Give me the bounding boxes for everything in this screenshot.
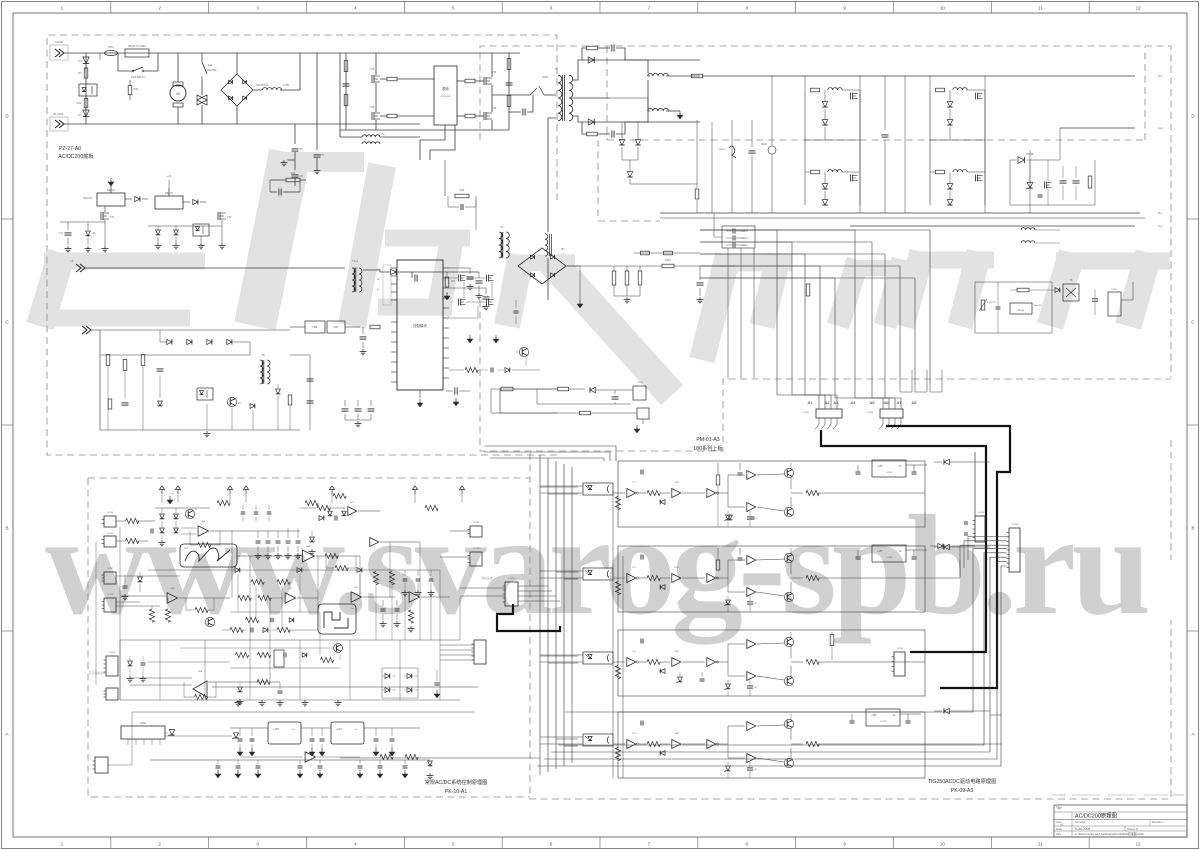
svg-text:171A: 171A xyxy=(673,481,679,484)
svg-text:DC...: DC... xyxy=(1158,74,1164,78)
buffer triangle 2e bottom xyxy=(747,588,756,597)
wire aux rail xyxy=(85,267,345,269)
svg-text:A: A xyxy=(5,732,8,737)
rectifier block at x=805 xyxy=(804,90,806,205)
inductor pair right xyxy=(1021,228,1035,230)
connector CON6 input xyxy=(50,45,68,60)
buffer triangle 4e bottom xyxy=(747,754,756,763)
resistor R ladder left xyxy=(149,609,154,622)
row3 zener cap xyxy=(678,677,683,682)
fan cap C180 xyxy=(1092,298,1098,300)
gnd bottom cluster xyxy=(206,431,208,434)
bottom caps row xyxy=(217,760,219,764)
right connector CON7 small xyxy=(975,516,985,542)
extra staircase wires right xyxy=(900,370,912,392)
wire bottom input rail xyxy=(64,123,420,125)
switch S1 xyxy=(201,53,203,62)
cap C26 xyxy=(278,690,283,692)
wire opto in xyxy=(540,570,583,572)
transistor Q3a xyxy=(784,637,793,646)
svg-text:PK-10-A1: PK-10-A1 xyxy=(445,789,468,795)
rail top channel xyxy=(790,548,792,554)
secondary snubber bottom xyxy=(587,132,598,136)
resistor R32 xyxy=(123,360,127,371)
svg-text:RV1: RV1 xyxy=(134,87,140,91)
svg-text:CON5: CON5 xyxy=(107,533,114,535)
svg-text:VT5: VT5 xyxy=(370,105,375,109)
cap C14 xyxy=(157,368,164,370)
cap C34a xyxy=(278,189,280,196)
buffer triangle 3b xyxy=(672,658,681,667)
svg-text:Sheet of: Sheet of xyxy=(1127,827,1138,831)
fan relay diode xyxy=(1055,288,1060,293)
svg-text:A1: A1 xyxy=(808,400,814,405)
current transformer T1 xyxy=(362,135,380,137)
resistor R21 xyxy=(126,538,139,543)
secondary diode D403a xyxy=(588,57,594,63)
lug DC4 xyxy=(1134,223,1136,225)
wire to split xyxy=(717,492,728,494)
wire module bottom gnd xyxy=(419,390,421,398)
diode D17 xyxy=(250,404,255,409)
svg-text:PM-01-A3: PM-01-A3 xyxy=(696,437,719,443)
cap C22 xyxy=(334,516,336,521)
svg-text:CON3: CON3 xyxy=(978,512,985,514)
output resistor R4o xyxy=(806,741,819,746)
svg-text:CON8: CON8 xyxy=(107,594,114,596)
wire board D to driver board left bus xyxy=(497,486,530,488)
board D outline PK-10-A1 xyxy=(88,478,530,797)
svg-text:VT6: VT6 xyxy=(492,106,497,110)
svg-text:CON6: CON6 xyxy=(55,40,64,44)
svg-text:+15V: +15V xyxy=(877,550,883,553)
extra diodes mid D xyxy=(235,568,240,573)
svg-text:10: 10 xyxy=(940,6,946,11)
connector CON10 multi xyxy=(505,582,518,606)
output resistor R1o xyxy=(806,490,819,495)
diode D12 xyxy=(391,269,397,275)
svg-text:CON4: CON4 xyxy=(107,512,114,514)
row3 output connector xyxy=(894,652,905,676)
varistor RV2 xyxy=(84,99,88,108)
left edge verticals D xyxy=(119,527,121,700)
svg-text:L7815: L7815 xyxy=(880,721,887,723)
opamp U26 xyxy=(351,592,362,603)
svg-text:R612: R612 xyxy=(665,259,671,262)
wires blocks verticals xyxy=(804,76,806,90)
svg-text:C4: C4 xyxy=(299,147,303,151)
svg-text:-OVI: -OVI xyxy=(376,269,381,271)
bottom D zener xyxy=(428,761,433,766)
svg-text:C:\Documents and Settings\(AC: C:\Documents and Settings\(AC DC200原理图).… xyxy=(1075,831,1144,836)
zone row ticks and letters xyxy=(2,218,14,220)
emitter join wires xyxy=(790,646,792,658)
resistor R24 xyxy=(615,582,620,595)
module left pins xyxy=(391,267,397,269)
svg-text:173A: 173A xyxy=(673,650,679,653)
rail top channel xyxy=(790,714,792,720)
extra gnd syms D xyxy=(237,700,239,703)
resistor R26d xyxy=(325,553,338,558)
svg-text:174A: 174A xyxy=(673,732,679,735)
extra transistor D xyxy=(334,644,343,653)
svg-text:VT1: VT1 xyxy=(110,215,115,219)
cap C613 with gnd xyxy=(454,388,456,395)
zener Z4 xyxy=(726,766,731,771)
svg-text:9-Jul-2008: 9-Jul-2008 xyxy=(1075,827,1090,831)
cap C40 xyxy=(515,300,517,308)
diode loop 2 xyxy=(660,585,665,590)
fan conn xyxy=(1108,292,1121,316)
svg-text:TTR80: TTR80 xyxy=(1012,524,1019,526)
svg-text:D7: D7 xyxy=(78,113,82,117)
row 700 verticals xyxy=(119,640,121,700)
buffer triangle 1c xyxy=(707,489,716,498)
reg caps xyxy=(851,714,853,720)
module right pins xyxy=(443,267,449,269)
rail top channel xyxy=(790,463,792,469)
regulator +15 box xyxy=(268,722,301,744)
mosfet VT1 xyxy=(100,212,102,220)
svg-text:CON1: CON1 xyxy=(140,722,147,725)
svg-text:TIG250ACDC驱动电路原理图: TIG250ACDC驱动电路原理图 xyxy=(928,777,996,785)
diode cluster relay2 xyxy=(156,230,161,235)
right cluster diode xyxy=(1029,150,1031,213)
wire bridge output xyxy=(253,89,262,91)
svg-text:MT1: MT1 xyxy=(108,45,114,49)
transistor Q2a xyxy=(784,553,793,562)
svg-text:RECKYSY-B04: RECKYSY-B04 xyxy=(128,44,146,48)
pot W3 xyxy=(169,730,174,735)
gnd sec xyxy=(679,111,681,115)
wires to CON3d xyxy=(440,644,474,646)
svg-text:10 Bu: 10 Bu xyxy=(283,84,290,87)
resistor R616 xyxy=(558,387,569,391)
svg-text:+15V: +15V xyxy=(273,727,279,731)
board B inner dashed partition xyxy=(607,46,1145,140)
mosfet VT5 xyxy=(371,112,373,120)
inductor L1 10uH xyxy=(262,88,281,90)
mid verticals D xyxy=(231,531,233,598)
inner dashed partition lower leg xyxy=(598,140,660,221)
zener D32 xyxy=(627,172,632,177)
diode bridge pairs xyxy=(385,674,390,679)
wire relay1 top xyxy=(110,185,112,193)
resistor R44 xyxy=(615,748,620,761)
ruling marks above title block xyxy=(1052,794,1066,796)
gate resistor R25 xyxy=(387,77,397,81)
svg-text:Date: Date xyxy=(1056,827,1063,831)
driver shared rail 613 xyxy=(612,490,614,778)
aux bridge B3 xyxy=(518,248,566,284)
output resistor R2o xyxy=(806,575,819,580)
svg-text:A5: A5 xyxy=(870,400,876,405)
svg-text:W2: W2 xyxy=(451,279,455,283)
feedback R27 xyxy=(335,565,348,570)
rail top D xyxy=(155,507,210,509)
left bus connect channels xyxy=(540,486,578,488)
fan relay coil xyxy=(1010,303,1032,314)
svg-text:D620B: D620B xyxy=(1026,153,1034,156)
buffer triangle 3a xyxy=(627,658,636,667)
wire opto in xyxy=(540,485,583,487)
resistor R617 xyxy=(580,411,591,415)
thick wire control to driver xyxy=(497,631,840,700)
series resistor zigzag 1 xyxy=(647,490,660,495)
wire inverter bottom rail xyxy=(340,129,509,131)
zener Z5 xyxy=(276,389,281,394)
extra zener cluster D xyxy=(328,511,332,515)
right cluster mosfet xyxy=(1044,182,1046,189)
small caps near CON7 xyxy=(964,521,966,525)
feedback R30d xyxy=(195,694,208,699)
svg-text:12: 12 xyxy=(1136,6,1142,11)
svg-text:D6: D6 xyxy=(78,59,82,63)
svg-text:U3D: U3D xyxy=(354,587,359,589)
svg-text:Q: Q xyxy=(195,509,197,511)
emitter join wires xyxy=(790,728,792,740)
svg-text:DS4 RELAY: DS4 RELAY xyxy=(131,75,145,79)
mosfet VT12 xyxy=(458,299,460,306)
buffer triangle 3e bottom xyxy=(747,672,756,681)
sub wires bottom cluster xyxy=(107,366,109,430)
connector CON3d mid xyxy=(474,640,486,664)
resistor R ladder 620 xyxy=(408,610,413,623)
opamp U22 xyxy=(348,507,357,516)
bottom rail D xyxy=(150,759,430,761)
HG01 sensor xyxy=(768,146,776,154)
svg-text:A(+): A(+) xyxy=(1158,126,1163,130)
opamp U20 xyxy=(198,526,209,537)
buffer triangle 4b xyxy=(672,740,681,749)
zener Z1 xyxy=(726,515,731,520)
sec rail junctions xyxy=(625,60,648,73)
fan relay resistor xyxy=(1017,288,1029,292)
diode D9 xyxy=(183,201,190,203)
wire aux bridge out xyxy=(566,265,580,267)
svg-text:10: 10 xyxy=(940,842,946,847)
svg-text:CON7: CON7 xyxy=(107,568,114,570)
svg-text:U5A: U5A xyxy=(201,520,206,523)
wire rail to inverter xyxy=(339,53,341,130)
rail top channel xyxy=(790,632,792,638)
vertical drop R45 xyxy=(696,120,698,188)
verticals under C34 box xyxy=(727,248,729,378)
wire relay branch xyxy=(118,53,124,71)
row4 zener cap xyxy=(727,767,729,769)
extra net mid D2 xyxy=(230,611,320,613)
svg-text:PK-09-A3: PK-09-A3 xyxy=(951,788,974,794)
svg-text:A(-): A(-) xyxy=(1158,224,1162,228)
wire opto in xyxy=(540,654,583,656)
buffer triangle 2c xyxy=(707,574,716,583)
74 logic box xyxy=(318,604,356,634)
svg-text:A1: A1 xyxy=(1060,823,1064,827)
connector CON616 xyxy=(633,386,646,400)
gate resistor R26 xyxy=(387,114,397,118)
lug DC3 xyxy=(1134,210,1136,212)
regulator U1R xyxy=(872,460,906,477)
svg-text:File: File xyxy=(1056,832,1061,836)
row3 thick link xyxy=(905,654,987,656)
svg-text:11: 11 xyxy=(1038,842,1043,847)
cap C27 pair xyxy=(435,682,440,684)
lug DC1 xyxy=(1134,73,1136,75)
thin wire to CON3 xyxy=(974,452,976,516)
switch S2 xyxy=(539,86,544,95)
diode D616 xyxy=(590,387,595,392)
svg-text:CON5: CON5 xyxy=(897,648,904,650)
resistor bleed xyxy=(280,89,292,91)
resistor R31d xyxy=(257,679,270,684)
resistor R33 xyxy=(141,355,145,366)
svg-text:OKI79/C33: OKI79/C33 xyxy=(256,84,268,87)
bus rail 218 xyxy=(660,217,1145,219)
board A outline PZ-27-A0 xyxy=(47,35,557,455)
reg diode D1r xyxy=(944,459,949,464)
opto U2 xyxy=(583,568,613,580)
zone column ticks and numbers xyxy=(110,2,112,14)
wire bundle board B bottom-left to board D xyxy=(479,392,481,460)
pot W2 xyxy=(445,277,449,287)
opto U4 xyxy=(583,734,613,746)
extra verticals D xyxy=(237,574,239,612)
buffer triangle 4c xyxy=(707,740,716,749)
wire row 640 xyxy=(120,639,460,641)
aux resistors x3 xyxy=(612,271,616,285)
regulator U4R xyxy=(866,709,900,726)
resistor R34 xyxy=(288,395,292,405)
driver channel 3 outline xyxy=(618,630,925,696)
bottom cluster rails xyxy=(100,329,290,331)
svg-text:REL457: REL457 xyxy=(1034,305,1043,307)
driver left bus horizontals xyxy=(539,486,541,488)
transistor Q1b xyxy=(784,507,793,516)
right connectors CON9 xyxy=(470,526,482,537)
svg-text:Title: Title xyxy=(1056,806,1062,810)
svg-text:S1a: S1a xyxy=(208,63,213,67)
right cluster caps xyxy=(1062,166,1064,178)
control module U10 xyxy=(397,260,443,390)
thick wire bus 1 xyxy=(886,426,1010,688)
svg-text:HR1: HR1 xyxy=(313,326,318,329)
svg-text:U4A: U4A xyxy=(306,545,311,548)
wires staircase into connectors xyxy=(777,385,819,409)
output inductor L3 xyxy=(648,108,669,111)
resistor R35 xyxy=(108,399,112,409)
svg-text:T2: T2 xyxy=(554,67,558,71)
CON10 wires to driver bus xyxy=(518,585,548,587)
cap C4z xyxy=(747,767,753,769)
motor M xyxy=(177,53,179,82)
opamp U27 triangle right xyxy=(409,592,420,603)
svg-text:-12V: -12V xyxy=(336,727,342,731)
svg-text:U3B: U3B xyxy=(170,588,175,590)
driver channel 4 outline xyxy=(618,712,925,778)
rectifier block at x=930 xyxy=(929,90,931,205)
board B outline PM-01-A3 xyxy=(480,46,1171,560)
triac VS1 xyxy=(197,95,207,105)
caps gnd row 610 xyxy=(382,600,384,606)
wire lower 404 xyxy=(537,403,631,405)
transistor Q1a xyxy=(784,468,793,477)
feedback network U24 xyxy=(195,607,208,612)
sawtooth generator box xyxy=(180,544,237,567)
cap C13 xyxy=(362,327,364,334)
mosfet VT4 xyxy=(483,77,485,85)
cap C24 xyxy=(124,575,126,583)
opamp U25 xyxy=(285,593,296,604)
svg-text:180系列上板: 180系列上板 xyxy=(693,444,723,452)
wire row 531 to right xyxy=(232,530,300,532)
thermistor RV1 xyxy=(99,53,101,60)
title block xyxy=(1054,805,1187,837)
svg-text:A2: A2 xyxy=(825,400,831,405)
opamp U2B bottom D xyxy=(305,752,316,763)
svg-text:A8: A8 xyxy=(912,400,918,405)
svg-text:RV2: RV2 xyxy=(77,101,83,105)
cap C3t xyxy=(627,632,629,640)
opto U1 xyxy=(583,483,613,495)
wire relay section bus xyxy=(148,225,222,227)
vcc arrows top row D xyxy=(159,486,164,490)
svg-text:U6C: U6C xyxy=(350,502,355,504)
extra horizontals D xyxy=(148,661,230,663)
svg-text:A4: A4 xyxy=(851,400,857,405)
main DC bus top xyxy=(702,75,1135,77)
zener pair D30 D31 xyxy=(619,140,624,145)
connector CON4 xyxy=(104,516,116,527)
wires into driver ch1 from left xyxy=(484,445,616,447)
opto U-relay xyxy=(193,224,209,236)
svg-text:Revision: Revision xyxy=(1152,820,1164,824)
right connector TTR80 xyxy=(1009,528,1020,572)
bottom D resistor pair xyxy=(380,754,393,759)
svg-text:T3-4: T3-4 xyxy=(352,259,358,263)
thick wire from control board CON10 xyxy=(497,604,560,631)
svg-text:A7: A7 xyxy=(897,400,903,405)
output node to HF transformer xyxy=(492,88,537,95)
wire to split xyxy=(717,577,728,579)
svg-text:U2A: U2A xyxy=(198,670,203,673)
svg-text:C17: C17 xyxy=(59,232,64,235)
connector CON7d xyxy=(104,572,116,584)
T2 secondary rails xyxy=(572,60,700,80)
svg-text:+15V: +15V xyxy=(871,714,877,717)
resistor R20 xyxy=(126,518,139,523)
cap C2t xyxy=(627,548,629,556)
svg-text:控制模块: 控制模块 xyxy=(413,323,427,328)
connector arrow bottom xyxy=(82,326,87,334)
gate resistor R28 xyxy=(465,114,475,118)
svg-text:AC/DC200原理图: AC/DC200原理图 xyxy=(1075,812,1117,820)
long rail 712 D xyxy=(132,711,475,713)
driver interconnect diodes right xyxy=(938,543,943,548)
diode D25 xyxy=(319,516,324,521)
svg-text:R40: R40 xyxy=(291,171,296,175)
reg row wires xyxy=(230,727,268,729)
wires mid rows xyxy=(148,569,440,571)
wire row 700 xyxy=(120,699,460,701)
svg-text:CON9: CON9 xyxy=(473,522,480,524)
svg-text:B3: B3 xyxy=(561,247,565,251)
aux transformer T7 xyxy=(499,232,502,258)
svg-text:B: B xyxy=(5,526,8,531)
bus rail 253 with resistors xyxy=(634,252,700,254)
wire module to current transformer xyxy=(420,125,445,160)
svg-text:C9: C9 xyxy=(299,174,303,178)
aux cap C76 xyxy=(699,266,701,280)
